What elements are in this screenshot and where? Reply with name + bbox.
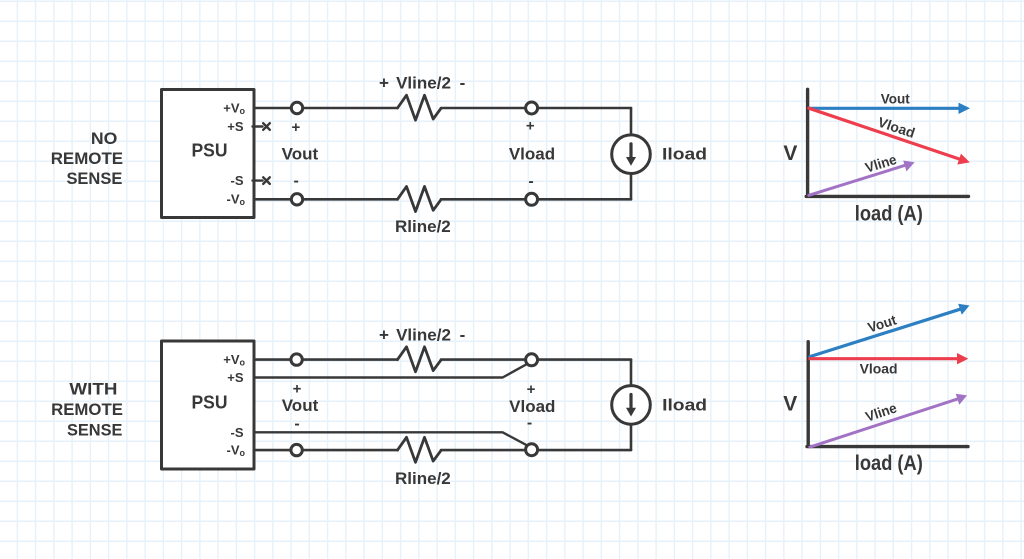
wire resistor to load corner (bottom rail, circuit 1)	[441, 198, 631, 201]
wire -S sense to load terminal (circuit 2)	[254, 432, 526, 445]
node terminal Vload- (circuit 1)	[526, 193, 538, 205]
wire current source to bottom rail (circuit 2)	[630, 425, 633, 450]
svg-text:Iload: Iload	[662, 145, 707, 164]
svg-text:Rline/2: Rline/2	[395, 469, 451, 488]
label Vout with polarity (circuit 1)	[282, 119, 319, 189]
svg-text:Vout: Vout	[282, 145, 319, 164]
PSU box U2 (with remote sense)	[162, 341, 255, 469]
value label + Vline/2 - (circuit 2)	[379, 325, 465, 344]
label Vout with polarity (circuit 2)	[282, 381, 319, 433]
node terminal Vload+ (circuit 2)	[526, 354, 538, 366]
svg-text:V: V	[783, 142, 797, 165]
resistor Rline/2 (bottom, circuit 1)	[398, 187, 442, 212]
node terminal Vout- (circuit 2)	[291, 444, 302, 455]
svg-text:Vline/2: Vline/2	[396, 74, 451, 93]
wire -Vo to resistor (bottom rail, circuit 2)	[254, 449, 398, 452]
svg-text:Vout: Vout	[282, 396, 319, 415]
svg-text:REMOTE: REMOTE	[51, 400, 123, 419]
wire -Vo to resistor (bottom rail, circuit 1)	[254, 198, 398, 201]
svg-text:-: -	[460, 325, 466, 344]
wire current source to bottom rail (circuit 1)	[630, 174, 633, 199]
wire +S stub (not connected)	[253, 125, 263, 127]
svg-text:Vout: Vout	[866, 311, 899, 335]
graph 2 curve Vout (blue)	[810, 304, 970, 357]
wire +S sense to load terminal (circuit 2)	[254, 365, 526, 378]
svg-text:+: +	[292, 119, 301, 136]
node terminal Vout+ (circuit 2)	[291, 354, 302, 365]
svg-text:Vload: Vload	[509, 397, 555, 416]
no-connect X on -S	[263, 177, 270, 184]
svg-text:PSU: PSU	[192, 393, 228, 413]
svg-text:load (A): load (A)	[855, 452, 923, 475]
svg-text:Vload: Vload	[509, 145, 555, 164]
graph 1 curve Vout (blue)	[809, 103, 970, 114]
svg-text:+: +	[379, 325, 389, 344]
node terminal Vout+ (circuit 1)	[291, 102, 302, 113]
resistor Rline/2 (top, circuit 1)	[398, 95, 442, 120]
value label + Vline/2 - (circuit 1)	[379, 74, 465, 93]
svg-text:Rline/2: Rline/2	[395, 217, 451, 236]
svg-text:Iload: Iload	[662, 396, 707, 415]
svg-text:WITH: WITH	[69, 380, 117, 399]
svg-text:-: -	[294, 415, 299, 432]
svg-text:Vout: Vout	[881, 90, 910, 106]
svg-text:SENSE: SENSE	[67, 421, 123, 440]
graph 1 curve Vline (purple)	[809, 161, 915, 196]
label Vload with polarity (circuit 1)	[509, 118, 555, 190]
svg-text:Vload: Vload	[860, 360, 898, 376]
wire -S stub (not connected)	[253, 179, 263, 181]
graph 2 curve Vline (purple)	[810, 394, 967, 447]
svg-text:-: -	[294, 172, 299, 189]
title WITH REMOTE SENSE	[51, 380, 123, 440]
svg-text:-S: -S	[231, 425, 244, 440]
svg-text:+: +	[527, 381, 536, 398]
svg-text:-: -	[527, 415, 532, 432]
current source I2 Iload (circuit 2)	[612, 386, 651, 425]
wire resistor to load corner (bottom rail, circuit 2)	[441, 449, 631, 452]
node terminal Vout- (circuit 1)	[291, 194, 302, 205]
wire resistor to load corner (top rail, circuit 2)	[441, 358, 631, 361]
svg-text:+S: +S	[227, 370, 244, 385]
svg-text:+: +	[293, 381, 302, 398]
node terminal Vload+ (circuit 1)	[526, 102, 538, 114]
no-connect X on +S	[263, 123, 270, 130]
current source I1 Iload (circuit 1)	[612, 135, 651, 174]
svg-text:REMOTE: REMOTE	[51, 149, 123, 168]
svg-text:+S: +S	[227, 119, 244, 134]
wire resistor to load corner (top rail, circuit 1)	[441, 107, 631, 110]
label Vload with polarity (circuit 2)	[509, 381, 555, 432]
wire +Vo to resistor (top rail, circuit 1)	[254, 107, 398, 110]
svg-text:PSU: PSU	[192, 141, 228, 161]
node terminal Vload- (circuit 2)	[526, 444, 538, 456]
svg-text:-: -	[528, 173, 533, 190]
svg-text:-: -	[460, 74, 466, 93]
svg-text:load (A): load (A)	[855, 202, 923, 225]
graph 1 axes	[806, 89, 968, 196]
wire corner down to current source (circuit 1)	[630, 108, 633, 134]
graph 2 axes	[807, 342, 968, 447]
title NO REMOTE SENSE	[51, 129, 123, 188]
svg-text:-S: -S	[231, 173, 244, 188]
svg-text:SENSE: SENSE	[66, 169, 122, 188]
resistor Rline/2 (bottom, circuit 2)	[398, 437, 442, 462]
resistor Rline/2 (top, circuit 2)	[398, 347, 442, 372]
svg-text:+: +	[526, 118, 535, 135]
wire +Vo to resistor (top rail, circuit 2)	[254, 358, 398, 361]
svg-text:NO: NO	[91, 129, 118, 148]
svg-text:+: +	[379, 74, 389, 93]
wire corner down to current source (circuit 2)	[630, 360, 633, 385]
graph 2 curve Vload (red)	[810, 353, 968, 364]
svg-text:Vline/2: Vline/2	[396, 325, 451, 344]
PSU box U1 (no remote sense)	[162, 90, 255, 218]
svg-text:V: V	[783, 392, 797, 415]
graph 1 curve Vload (red)	[809, 108, 970, 164]
